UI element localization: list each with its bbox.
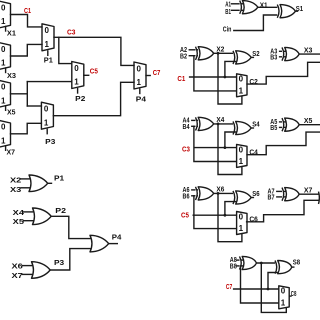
svg-text:0: 0 [74, 64, 79, 73]
wire B4 to XOR [192, 125, 198, 127]
wire X4 [214, 123, 234, 125]
wire A4 to XOR [192, 119, 198, 121]
svg-text:0: 0 [44, 105, 49, 114]
wire X3 to OR1 [21, 187, 32, 189]
wire P3 out to P4 input 1 [53, 82, 134, 115]
svg-text:1: 1 [239, 157, 244, 166]
wire B1 to XOR [232, 9, 243, 11]
wire P2 out (C5) stub [84, 74, 89, 76]
clipped gate arc sliver (right edge, row 4) [318, 192, 320, 204]
svg-text:0: 0 [239, 212, 244, 221]
svg-text:C8: C8 [291, 291, 297, 298]
wire M4 out to P3 input 1 [11, 123, 42, 134]
wire X2 [214, 52, 234, 54]
svg-text:C1: C1 [177, 76, 185, 83]
wire C5 to mux input 0 [193, 214, 236, 216]
wire M3 out to P2 input 1 [27, 81, 72, 83]
svg-text:1: 1 [239, 224, 244, 233]
select stub X7 [5, 146, 7, 151]
svg-text:X7: X7 [12, 273, 23, 280]
wire P1 out (C3) to P4 input 0 [54, 37, 134, 65]
wire P4 out (C7) stub [146, 75, 150, 77]
select stub P3 [46, 129, 48, 133]
svg-text:B8: B8 [230, 263, 237, 270]
OR gate P4 [90, 235, 109, 252]
wire A7 to XOR [277, 190, 285, 192]
wire A8 to XOR [237, 259, 244, 261]
svg-text:B6: B6 [183, 194, 190, 201]
wire C5 to XOR S6 [225, 202, 236, 216]
svg-text:X7: X7 [304, 188, 313, 195]
mux M2 (select X3) [0, 43, 11, 70]
wire C1 to XOR S2 [225, 61, 236, 77]
svg-text:X5: X5 [304, 118, 313, 125]
svg-text:B2: B2 [180, 54, 187, 61]
xor gate (S6) [233, 191, 251, 204]
mux C4 [237, 144, 247, 167]
wire M1 out (C1) to P1 input 0 [11, 15, 43, 27]
wire X8 select loop to mux C8 [261, 263, 286, 312]
svg-text:B4: B4 [183, 124, 190, 131]
xor gate (A2^B2) [196, 47, 214, 60]
wire B6 to XOR [192, 195, 198, 197]
wire C2 to right edge [247, 62, 320, 84]
wire C3 to mux input 0 [194, 147, 236, 149]
svg-text:S2: S2 [252, 51, 259, 58]
svg-text:P2: P2 [55, 208, 66, 215]
wire B4 to mux input 1 [194, 126, 237, 161]
junction C3 [224, 146, 227, 149]
xor gate (A4^B4) [196, 117, 214, 130]
OR gate P3 [32, 262, 51, 279]
svg-text:0: 0 [1, 83, 6, 92]
wire C3 to XOR S4 [225, 132, 236, 148]
svg-text:0: 0 [239, 75, 244, 84]
wire A3 to XOR [280, 50, 285, 52]
wire X6 to OR3 [23, 265, 35, 267]
svg-text:S6: S6 [252, 191, 259, 198]
wire X6 [214, 192, 234, 194]
svg-text:C3: C3 [182, 147, 190, 154]
svg-text:C1: C1 [24, 8, 31, 15]
svg-text:1: 1 [44, 118, 49, 127]
svg-text:0: 0 [1, 45, 6, 54]
wire A1 to XOR [232, 3, 243, 5]
wire C7 to XOR S8 [268, 273, 278, 290]
wire OR4 out stub [109, 243, 118, 245]
xor gate (A8^B8) [240, 256, 257, 269]
svg-text:S4: S4 [252, 122, 259, 129]
svg-text:S8: S8 [293, 260, 300, 267]
svg-text:B3: B3 [270, 55, 277, 62]
svg-text:X5: X5 [7, 109, 16, 116]
select stub X3 [5, 68, 7, 73]
mux M4 (select X7) [0, 120, 11, 147]
wire C6 to right edge [247, 200, 319, 222]
wire B2 to mux input 1 [194, 56, 237, 91]
svg-text:P2: P2 [75, 96, 85, 103]
mux P4 [134, 62, 146, 89]
svg-text:P1: P1 [44, 58, 53, 65]
xor gate (A5^B5) [282, 118, 299, 131]
select stub X5 [5, 106, 7, 111]
svg-text:0: 0 [1, 123, 6, 132]
wire X5 to OR2 [24, 220, 36, 222]
wire X5 to right edge [299, 124, 320, 126]
svg-text:Cin: Cin [223, 27, 232, 34]
svg-text:X4: X4 [13, 210, 24, 217]
wire X1 to XOR S1 [258, 6, 278, 8]
wire M2 out to P1 input 1 [11, 44, 43, 56]
OR gate P1 [29, 175, 48, 192]
OR gate P2 [33, 208, 52, 225]
wire A2 to XOR [189, 49, 197, 51]
wire OR3 out to OR4 input [50, 249, 90, 270]
svg-text:X1: X1 [260, 2, 268, 9]
svg-text:C4: C4 [249, 150, 258, 157]
svg-text:1: 1 [1, 17, 6, 26]
svg-text:1: 1 [239, 86, 244, 95]
svg-text:0: 0 [136, 64, 141, 73]
svg-text:C3: C3 [67, 29, 76, 36]
svg-text:C7: C7 [153, 70, 161, 77]
junction X6 [217, 192, 220, 195]
svg-text:A1: A1 [225, 1, 231, 8]
svg-text:X7: X7 [7, 149, 16, 156]
wire S4 out stub [251, 127, 253, 129]
wire X7 to OR3 [23, 273, 35, 275]
wire B6 to mux input 1 [194, 196, 237, 229]
svg-text:P1: P1 [54, 175, 64, 182]
svg-text:1: 1 [1, 137, 6, 146]
select stub P4 [139, 89, 141, 93]
xor gate (S8) [275, 261, 292, 274]
svg-text:P4: P4 [136, 96, 146, 103]
wire C4 to right edge [247, 132, 320, 155]
svg-text:1: 1 [44, 40, 49, 49]
mux C2 [237, 74, 247, 97]
svg-text:P4: P4 [112, 235, 122, 242]
wire M3 out [11, 93, 28, 95]
xor gate (S4) [233, 121, 251, 134]
junction C1 [224, 76, 227, 79]
svg-text:1: 1 [1, 97, 6, 106]
mux M3 (select X5) [0, 80, 11, 107]
svg-text:1: 1 [281, 298, 286, 307]
svg-text:X6: X6 [12, 264, 23, 271]
wire C1 to mux input 0 [190, 76, 237, 78]
wire OR1 out stub [48, 182, 52, 184]
mux P3 [41, 102, 53, 129]
svg-text:X5: X5 [13, 219, 24, 226]
svg-text:B1: B1 [225, 9, 231, 16]
svg-text:S1: S1 [296, 6, 303, 13]
svg-text:B5: B5 [270, 125, 277, 132]
select stub X1 [5, 27, 7, 32]
svg-text:X3: X3 [304, 48, 313, 55]
svg-text:C5: C5 [90, 69, 98, 76]
junction X2 [217, 52, 220, 55]
svg-text:C2: C2 [249, 79, 258, 86]
mux C8 [279, 286, 289, 309]
wire S1 out stub [296, 10, 298, 12]
wire OR2 out to OR4 input [51, 216, 90, 238]
svg-text:X3: X3 [10, 187, 21, 194]
wire B2 to XOR [189, 55, 197, 57]
wire M3 out to P3 input 0 [27, 105, 41, 107]
svg-text:1: 1 [136, 78, 141, 87]
svg-text:P3: P3 [54, 260, 64, 267]
wire X4 to OR2 [24, 211, 36, 213]
wire M3 out vertical [26, 82, 28, 106]
svg-text:C5: C5 [181, 213, 189, 220]
wire X2 to OR1 [21, 178, 32, 180]
svg-text:1: 1 [74, 78, 79, 87]
select stub P2 [77, 89, 79, 93]
svg-text:0: 0 [1, 3, 6, 12]
svg-text:B7: B7 [268, 195, 275, 202]
wire A6 to XOR [192, 189, 198, 191]
junction X8 [260, 262, 263, 265]
wire A5 to XOR [280, 121, 285, 123]
wire B8 to XOR [237, 265, 244, 267]
xor gate (A7^B7) [282, 188, 299, 201]
mux P2 [72, 62, 84, 89]
svg-text:X1: X1 [7, 31, 16, 38]
select stub P1 [47, 51, 49, 55]
xor gate U2 (S1) [277, 5, 295, 18]
xor gate (A3^B3) [282, 47, 299, 60]
wire B5 to XOR [280, 126, 285, 128]
wire S2 out stub [251, 56, 253, 58]
xor gate U1 (A1^B1) [240, 1, 258, 14]
svg-text:X3: X3 [7, 73, 16, 80]
svg-text:0: 0 [281, 287, 286, 296]
xor gate (S2) [233, 51, 251, 64]
wire Cin to XOR S1 [234, 15, 278, 31]
mux M1 (select X1) [0, 1, 11, 28]
xor gate (A6^B6) [196, 187, 214, 200]
wire B3 to XOR [280, 56, 285, 58]
wire X6 select loop to mux [218, 193, 242, 241]
svg-text:1: 1 [1, 59, 6, 68]
svg-text:C7: C7 [226, 284, 232, 291]
wire X2 select loop to mux [218, 53, 242, 104]
junction C7 [267, 288, 270, 291]
svg-text:C6: C6 [249, 217, 258, 224]
svg-text:P3: P3 [45, 139, 55, 146]
wire C3 branch to P2 input 0 [59, 37, 72, 63]
wire X7 to right edge [299, 193, 318, 195]
mux C6 [237, 212, 247, 235]
junction C5 [224, 214, 227, 217]
mux P1 [42, 24, 54, 51]
wire C7 to mux C8 input 0 [234, 288, 279, 290]
junction X4 [217, 123, 220, 126]
svg-text:0: 0 [239, 145, 244, 154]
wire C8 out stub [289, 295, 291, 297]
wire S6 out stub [251, 197, 253, 199]
wire X3 to right edge [299, 53, 320, 55]
wire X4 select loop to mux [218, 124, 242, 175]
svg-text:X2: X2 [10, 177, 21, 184]
wire S8 out stub [292, 266, 294, 268]
wire X8 [257, 262, 276, 264]
wire B7 to XOR [277, 196, 285, 198]
svg-text:0: 0 [44, 26, 49, 35]
wire B8 to mux C8 input 1 [241, 266, 279, 303]
